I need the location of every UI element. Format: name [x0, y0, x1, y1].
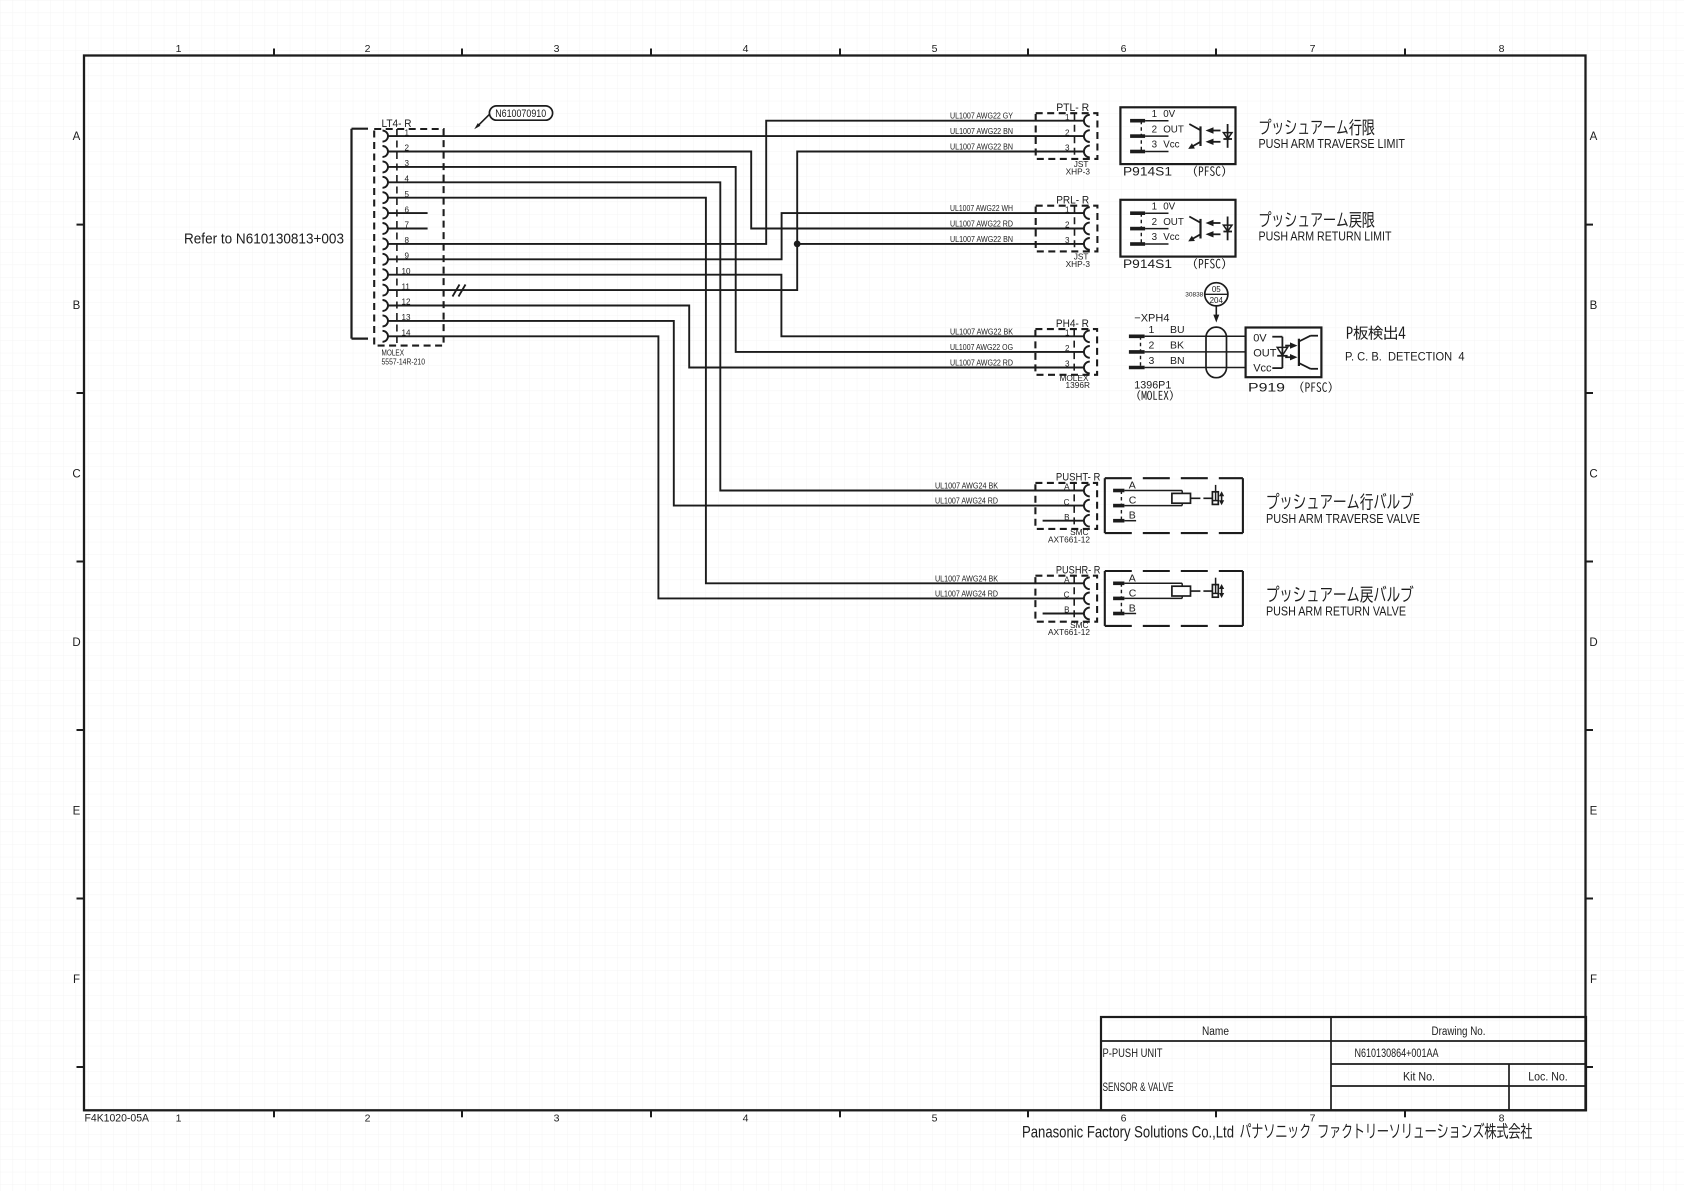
- svg-text:OUT: OUT: [1253, 347, 1277, 359]
- svg-text:Vcc: Vcc: [1253, 362, 1272, 374]
- svg-text:A: A: [1590, 131, 1598, 143]
- svg-text:A: A: [1064, 576, 1070, 585]
- svg-text:2: 2: [1065, 344, 1070, 353]
- svg-text:UL1007 AWG22 BK: UL1007 AWG22 BK: [950, 326, 1013, 336]
- svg-text:UL1007 AWG22 RD: UL1007 AWG22 RD: [950, 358, 1013, 368]
- svg-text:5557-14R-210: 5557-14R-210: [382, 357, 426, 367]
- svg-text:OUT: OUT: [1163, 217, 1184, 228]
- svg-text:F: F: [1590, 974, 1597, 986]
- svg-text:P. C. B. DETECTION 4: P. C. B. DETECTION 4: [1345, 349, 1465, 363]
- svg-text:7: 7: [1310, 43, 1316, 55]
- svg-text:5: 5: [932, 43, 938, 55]
- svg-text:PUSHR- R: PUSHR- R: [1056, 565, 1101, 577]
- svg-text:1: 1: [176, 1113, 182, 1125]
- svg-text:Kit No.: Kit No.: [1403, 1072, 1435, 1084]
- svg-text:3: 3: [1149, 355, 1155, 367]
- svg-text:2: 2: [1065, 221, 1070, 230]
- svg-text:UL1007 AWG22 GY: UL1007 AWG22 GY: [950, 111, 1013, 121]
- svg-text:P914S1: P914S1: [1123, 259, 1172, 271]
- svg-text:UL1007 AWG22 WH: UL1007 AWG22 WH: [950, 203, 1013, 213]
- svg-text:C: C: [1129, 495, 1137, 507]
- svg-text:B: B: [73, 300, 81, 312]
- svg-text:UL1007 AWG24 RD: UL1007 AWG24 RD: [935, 496, 998, 506]
- svg-text:PUSH ARM RETURN LIMIT: PUSH ARM RETURN LIMIT: [1259, 228, 1392, 243]
- svg-text:3: 3: [1065, 144, 1070, 153]
- svg-text:BU: BU: [1170, 324, 1185, 336]
- svg-text:05: 05: [1212, 285, 1221, 294]
- svg-text:UL1007 AWG22 BN: UL1007 AWG22 BN: [950, 234, 1013, 244]
- svg-text:PUSH ARM RETURN VALVE: PUSH ARM RETURN VALVE: [1266, 604, 1406, 619]
- svg-text:UL1007 AWG22 RD: UL1007 AWG22 RD: [950, 219, 1013, 229]
- svg-text:7: 7: [1310, 1113, 1316, 1125]
- svg-text:B: B: [1064, 606, 1069, 615]
- svg-text:C: C: [72, 468, 80, 480]
- svg-text:3: 3: [1065, 236, 1070, 245]
- svg-text:1: 1: [176, 43, 182, 55]
- svg-text:P-PUSH UNIT: P-PUSH UNIT: [1103, 1046, 1164, 1060]
- svg-text:E: E: [1590, 805, 1598, 817]
- svg-text:B: B: [1064, 513, 1069, 522]
- svg-text:1: 1: [1065, 205, 1070, 214]
- svg-text:2: 2: [365, 43, 371, 55]
- svg-text:F4K1020-05A: F4K1020-05A: [85, 1112, 150, 1124]
- svg-text:Refer to N610130813+003: Refer to N610130813+003: [184, 232, 344, 248]
- svg-text:PUSHT- R: PUSHT- R: [1056, 472, 1101, 484]
- svg-text:1: 1: [1149, 324, 1155, 336]
- svg-text:Loc. No.: Loc. No.: [1528, 1072, 1568, 1084]
- svg-text:N610070910: N610070910: [495, 108, 546, 120]
- svg-text:XHP-3: XHP-3: [1066, 166, 1091, 176]
- svg-text:UL1007 AWG22 OG: UL1007 AWG22 OG: [950, 342, 1013, 352]
- svg-text:D: D: [72, 637, 80, 649]
- svg-text:8: 8: [1499, 1113, 1505, 1125]
- svg-text:C: C: [1129, 587, 1137, 599]
- svg-text:F: F: [73, 974, 80, 986]
- svg-text:0V: 0V: [1163, 201, 1175, 212]
- svg-text:B: B: [1129, 510, 1136, 522]
- svg-text:A: A: [73, 131, 81, 143]
- svg-text:3: 3: [554, 43, 560, 55]
- svg-text:1: 1: [1152, 201, 1157, 212]
- svg-text:XHP-3: XHP-3: [1066, 259, 1091, 269]
- svg-text:0V: 0V: [1253, 332, 1267, 344]
- svg-text:PRL- R: PRL- R: [1056, 195, 1089, 207]
- svg-text:204: 204: [1210, 296, 1224, 305]
- svg-text:2: 2: [1149, 339, 1155, 351]
- svg-text:Drawing No.: Drawing No.: [1432, 1026, 1486, 1038]
- svg-text:P914S1: P914S1: [1123, 167, 1172, 179]
- svg-text:Name: Name: [1202, 1026, 1229, 1038]
- svg-text:C: C: [1064, 498, 1070, 507]
- svg-text:Panasonic Factory Solutions Co: Panasonic Factory Solutions Co.,Ltd: [1022, 1124, 1234, 1142]
- svg-text:4: 4: [743, 43, 749, 55]
- svg-text:2: 2: [1065, 128, 1070, 137]
- svg-text:B: B: [1590, 300, 1598, 312]
- svg-text:UL1007 AWG22 BN: UL1007 AWG22 BN: [950, 142, 1013, 152]
- svg-text:Vcc: Vcc: [1163, 232, 1179, 243]
- svg-text:P919: P919: [1248, 383, 1285, 395]
- svg-text:UL1007 AWG22 BN: UL1007 AWG22 BN: [950, 126, 1013, 136]
- svg-text:AXT661-12: AXT661-12: [1048, 627, 1090, 637]
- svg-text:PUSH ARM TRAVERSE VALVE: PUSH ARM TRAVERSE VALVE: [1266, 511, 1420, 526]
- svg-text:E: E: [73, 805, 81, 817]
- svg-text:A: A: [1129, 572, 1136, 584]
- svg-text:PUSH ARM TRAVERSE LIMIT: PUSH ARM TRAVERSE LIMIT: [1259, 136, 1406, 151]
- svg-text:1: 1: [1152, 109, 1157, 120]
- svg-text:8: 8: [1499, 43, 1505, 55]
- svg-text:A: A: [1064, 483, 1070, 492]
- svg-text:3: 3: [1152, 140, 1158, 151]
- svg-text:6: 6: [1121, 43, 1127, 55]
- svg-text:B: B: [1129, 603, 1136, 615]
- svg-text:N610130864+001AA: N610130864+001AA: [1355, 1046, 1439, 1060]
- svg-text:1396R: 1396R: [1066, 380, 1090, 390]
- svg-text:3: 3: [554, 1113, 560, 1125]
- svg-text:PTL- R: PTL- R: [1056, 102, 1089, 114]
- svg-text:2: 2: [1152, 124, 1157, 135]
- svg-text:Vcc: Vcc: [1163, 140, 1179, 151]
- svg-text:4: 4: [743, 1113, 749, 1125]
- svg-text:PH4- R: PH4- R: [1056, 318, 1089, 330]
- svg-text:OUT: OUT: [1163, 124, 1184, 135]
- svg-text:0V: 0V: [1163, 109, 1175, 120]
- svg-text:3: 3: [1152, 232, 1158, 243]
- svg-text:3: 3: [1065, 360, 1070, 369]
- svg-text:UL1007 AWG24 BK: UL1007 AWG24 BK: [935, 573, 998, 583]
- svg-text:2: 2: [365, 1113, 371, 1125]
- svg-text:BN: BN: [1170, 355, 1185, 367]
- svg-text:1: 1: [1065, 113, 1070, 122]
- svg-text:5: 5: [932, 1113, 938, 1125]
- svg-text:BK: BK: [1170, 339, 1184, 351]
- svg-text:A: A: [1129, 480, 1136, 492]
- svg-text:C: C: [1064, 591, 1070, 600]
- svg-text:30838: 30838: [1185, 292, 1203, 299]
- svg-text:SENSOR & VALVE: SENSOR & VALVE: [1103, 1080, 1174, 1094]
- svg-text:AXT661-12: AXT661-12: [1048, 534, 1090, 544]
- svg-text:1396P1: 1396P1: [1134, 380, 1171, 392]
- svg-text:UL1007 AWG24 BK: UL1007 AWG24 BK: [935, 481, 998, 491]
- svg-text:2: 2: [1152, 217, 1157, 228]
- svg-text:D: D: [1589, 637, 1597, 649]
- svg-text:C: C: [1589, 468, 1597, 480]
- svg-text:UL1007 AWG24 RD: UL1007 AWG24 RD: [935, 588, 998, 598]
